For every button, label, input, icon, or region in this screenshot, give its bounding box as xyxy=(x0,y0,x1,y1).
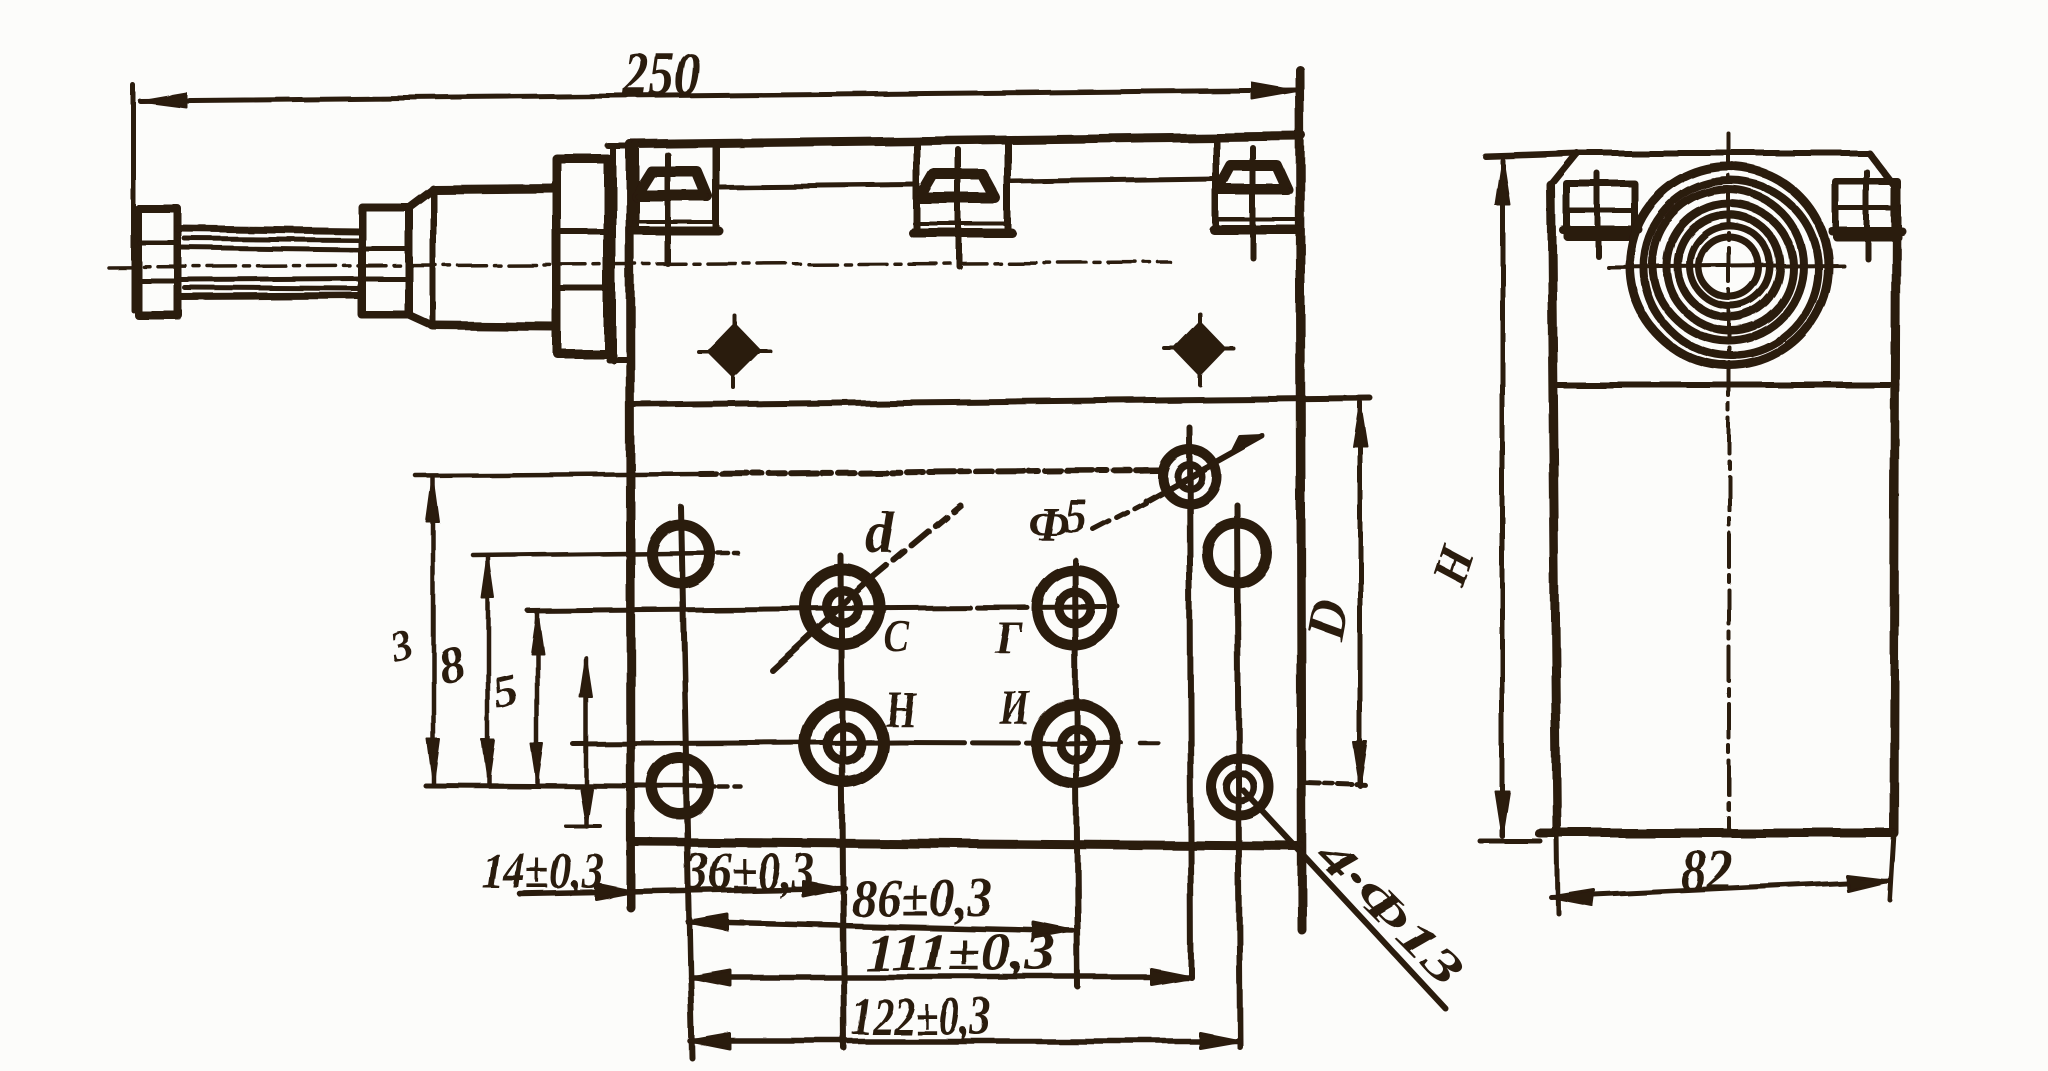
dimension 250 left extension line xyxy=(131,85,136,310)
body left edge xyxy=(630,144,631,908)
hole column line right xyxy=(1237,505,1240,1047)
bottom dim line 86 xyxy=(688,922,1073,931)
body right edge xyxy=(1300,70,1302,930)
tab 1 pin xyxy=(665,155,671,264)
body step line A xyxy=(632,398,1370,405)
row line y743 xyxy=(573,742,900,744)
knob ring 2 xyxy=(1644,181,1818,355)
hole F5 outer xyxy=(1162,449,1216,503)
hole N inner xyxy=(827,726,861,760)
hex nut on rod xyxy=(362,207,409,315)
side left edge xyxy=(1551,185,1557,833)
side top edge xyxy=(1485,153,1869,156)
hole column line 1 xyxy=(681,507,692,1058)
cross marker right xyxy=(1175,323,1225,375)
tab 3 screw head xyxy=(1218,166,1288,190)
svg-text:Н: Н xyxy=(885,681,917,737)
bottom dim line 14/36 xyxy=(520,888,845,894)
side right edge xyxy=(1894,188,1896,833)
dimension 250 right arrow xyxy=(1252,83,1297,99)
hole top-left xyxy=(652,525,710,583)
row line y555 xyxy=(474,553,714,556)
svg-text:Ф: Ф xyxy=(1028,498,1069,551)
left dim 2 xyxy=(487,557,492,783)
body top edge xyxy=(630,136,1302,144)
hole C inner xyxy=(827,591,859,623)
left dim 3 xyxy=(535,612,540,783)
svg-text:86±0,3: 86±0,3 xyxy=(851,868,993,928)
82 dim line xyxy=(1551,881,1889,897)
hole N outer xyxy=(805,704,883,782)
svg-text:111±0,3: 111±0,3 xyxy=(864,922,1056,982)
row line y786 xyxy=(425,785,648,786)
tab 2 screw head xyxy=(920,175,996,199)
hole C outer xyxy=(806,570,880,644)
neck strip to body xyxy=(610,146,616,360)
body bottom edge xyxy=(631,842,1300,846)
cone taper xyxy=(409,189,433,207)
svg-text:36±0,3: 36±0,3 xyxy=(685,841,814,901)
hole top-right xyxy=(1207,523,1267,583)
right vertical dim Q xyxy=(1358,402,1363,786)
hole I inner xyxy=(1060,728,1092,760)
hole bottom-left xyxy=(652,758,708,814)
svg-text:И: И xyxy=(999,679,1031,735)
hole column line G-I xyxy=(1075,560,1078,987)
H dim line xyxy=(1500,160,1505,836)
bottom dim line 111 xyxy=(690,974,1191,980)
threaded rod xyxy=(178,229,362,231)
row786 right extension xyxy=(1306,783,1368,785)
side tab left box xyxy=(1567,184,1635,237)
left dim 4 xyxy=(584,658,589,826)
tab 3 box xyxy=(1213,138,1220,230)
tab 3 pin xyxy=(1250,148,1256,258)
svg-text:С: С xyxy=(884,611,911,662)
row line y475 xyxy=(416,474,700,476)
cross marker left xyxy=(708,324,760,377)
shoulder line tab2-tab3 xyxy=(1012,179,1214,182)
tab 2 box xyxy=(914,141,921,233)
hole F5 inner xyxy=(1177,464,1201,488)
left dim 1 xyxy=(431,478,436,783)
knob ring 7 xyxy=(1699,237,1759,297)
leader 4xF13 xyxy=(1243,790,1445,1008)
cylinder section xyxy=(433,188,557,189)
svg-text:5: 5 xyxy=(1064,490,1088,543)
side right edge extension xyxy=(1890,833,1894,900)
side top-right chamfer xyxy=(1869,153,1896,188)
side bottom edge xyxy=(1539,829,1892,838)
tab 2 pin xyxy=(956,150,962,266)
centerline of shaft xyxy=(108,262,1170,267)
tab 1 screw head xyxy=(637,172,707,196)
knob ring 5 xyxy=(1678,215,1780,317)
svg-text:Г: Г xyxy=(993,611,1022,662)
hole bottom-right inner xyxy=(1226,773,1254,801)
side tab right box xyxy=(1836,182,1898,237)
svg-text:d: d xyxy=(866,501,896,566)
dimension 250 line xyxy=(140,90,1296,101)
knob ring 1 xyxy=(1630,167,1828,365)
dimension 250 left arrow xyxy=(140,93,186,107)
leader for F5 hole xyxy=(1094,503,1146,530)
hex bolt head xyxy=(138,209,178,315)
knob ring 3 xyxy=(1653,190,1803,340)
knob ring 6 xyxy=(1690,226,1770,306)
side vertical centerline xyxy=(1727,134,1731,833)
svg-text:122±0,3: 122±0,3 xyxy=(851,986,991,1046)
svg-text:14±0,3: 14±0,3 xyxy=(482,843,604,900)
leader for C hole xyxy=(772,580,870,670)
svg-text:250: 250 xyxy=(623,41,700,109)
hole G inner xyxy=(1059,592,1091,624)
flange xyxy=(557,159,608,353)
shoulder line tab1-tab2 xyxy=(719,185,915,187)
hole I outer xyxy=(1036,704,1116,784)
hole column line F5 xyxy=(1189,427,1191,977)
side top-left chamfer xyxy=(1551,153,1577,185)
hole column line C xyxy=(841,556,844,1048)
bottom dim line 122 xyxy=(690,1038,1240,1044)
row line y610 xyxy=(528,608,900,611)
side left edge extension xyxy=(1557,833,1558,913)
side step line xyxy=(1557,382,1897,388)
svg-text:82: 82 xyxy=(1681,838,1733,904)
hole bottom-right outer xyxy=(1211,758,1269,816)
knob horizontal centerline xyxy=(1608,265,1843,267)
hole G outer xyxy=(1037,570,1113,646)
knob ring 4 xyxy=(1667,204,1793,330)
tab 1 box xyxy=(633,144,640,231)
